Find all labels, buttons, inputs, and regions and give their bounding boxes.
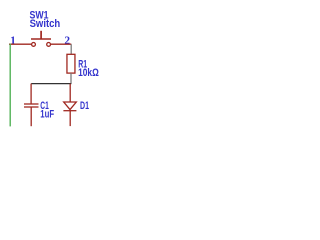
svg-text:1: 1 [10,35,16,47]
svg-text:Switch: Switch [30,18,61,30]
switch SW1 symbol [31,31,51,47]
diode D1 triangle [64,102,77,110]
svg-text:D1: D1 [80,100,89,112]
capacitor C1 plates [24,104,39,107]
capacitor C1 bottom lead [30,107,32,126]
wire net1 horizontal [9,43,32,45]
wire net1 green vertical [9,44,11,127]
pin stub R1 top (gray) [70,44,72,54]
diode D1 cathode bar [63,110,76,112]
capacitor C1 top lead [30,84,32,104]
svg-text:2: 2 [64,35,70,47]
svg-text:10kΩ: 10kΩ [78,67,99,79]
wire C1-to-R1/D1 junction (black) [31,83,71,85]
wire net2 horizontal [51,43,72,45]
diode D1 bottom lead [69,111,71,126]
resistor R1 body [67,54,75,73]
pin stub R1 bottom (gray) [70,73,72,84]
svg-text:1uF: 1uF [40,109,54,121]
diode D1 top lead [69,84,71,102]
